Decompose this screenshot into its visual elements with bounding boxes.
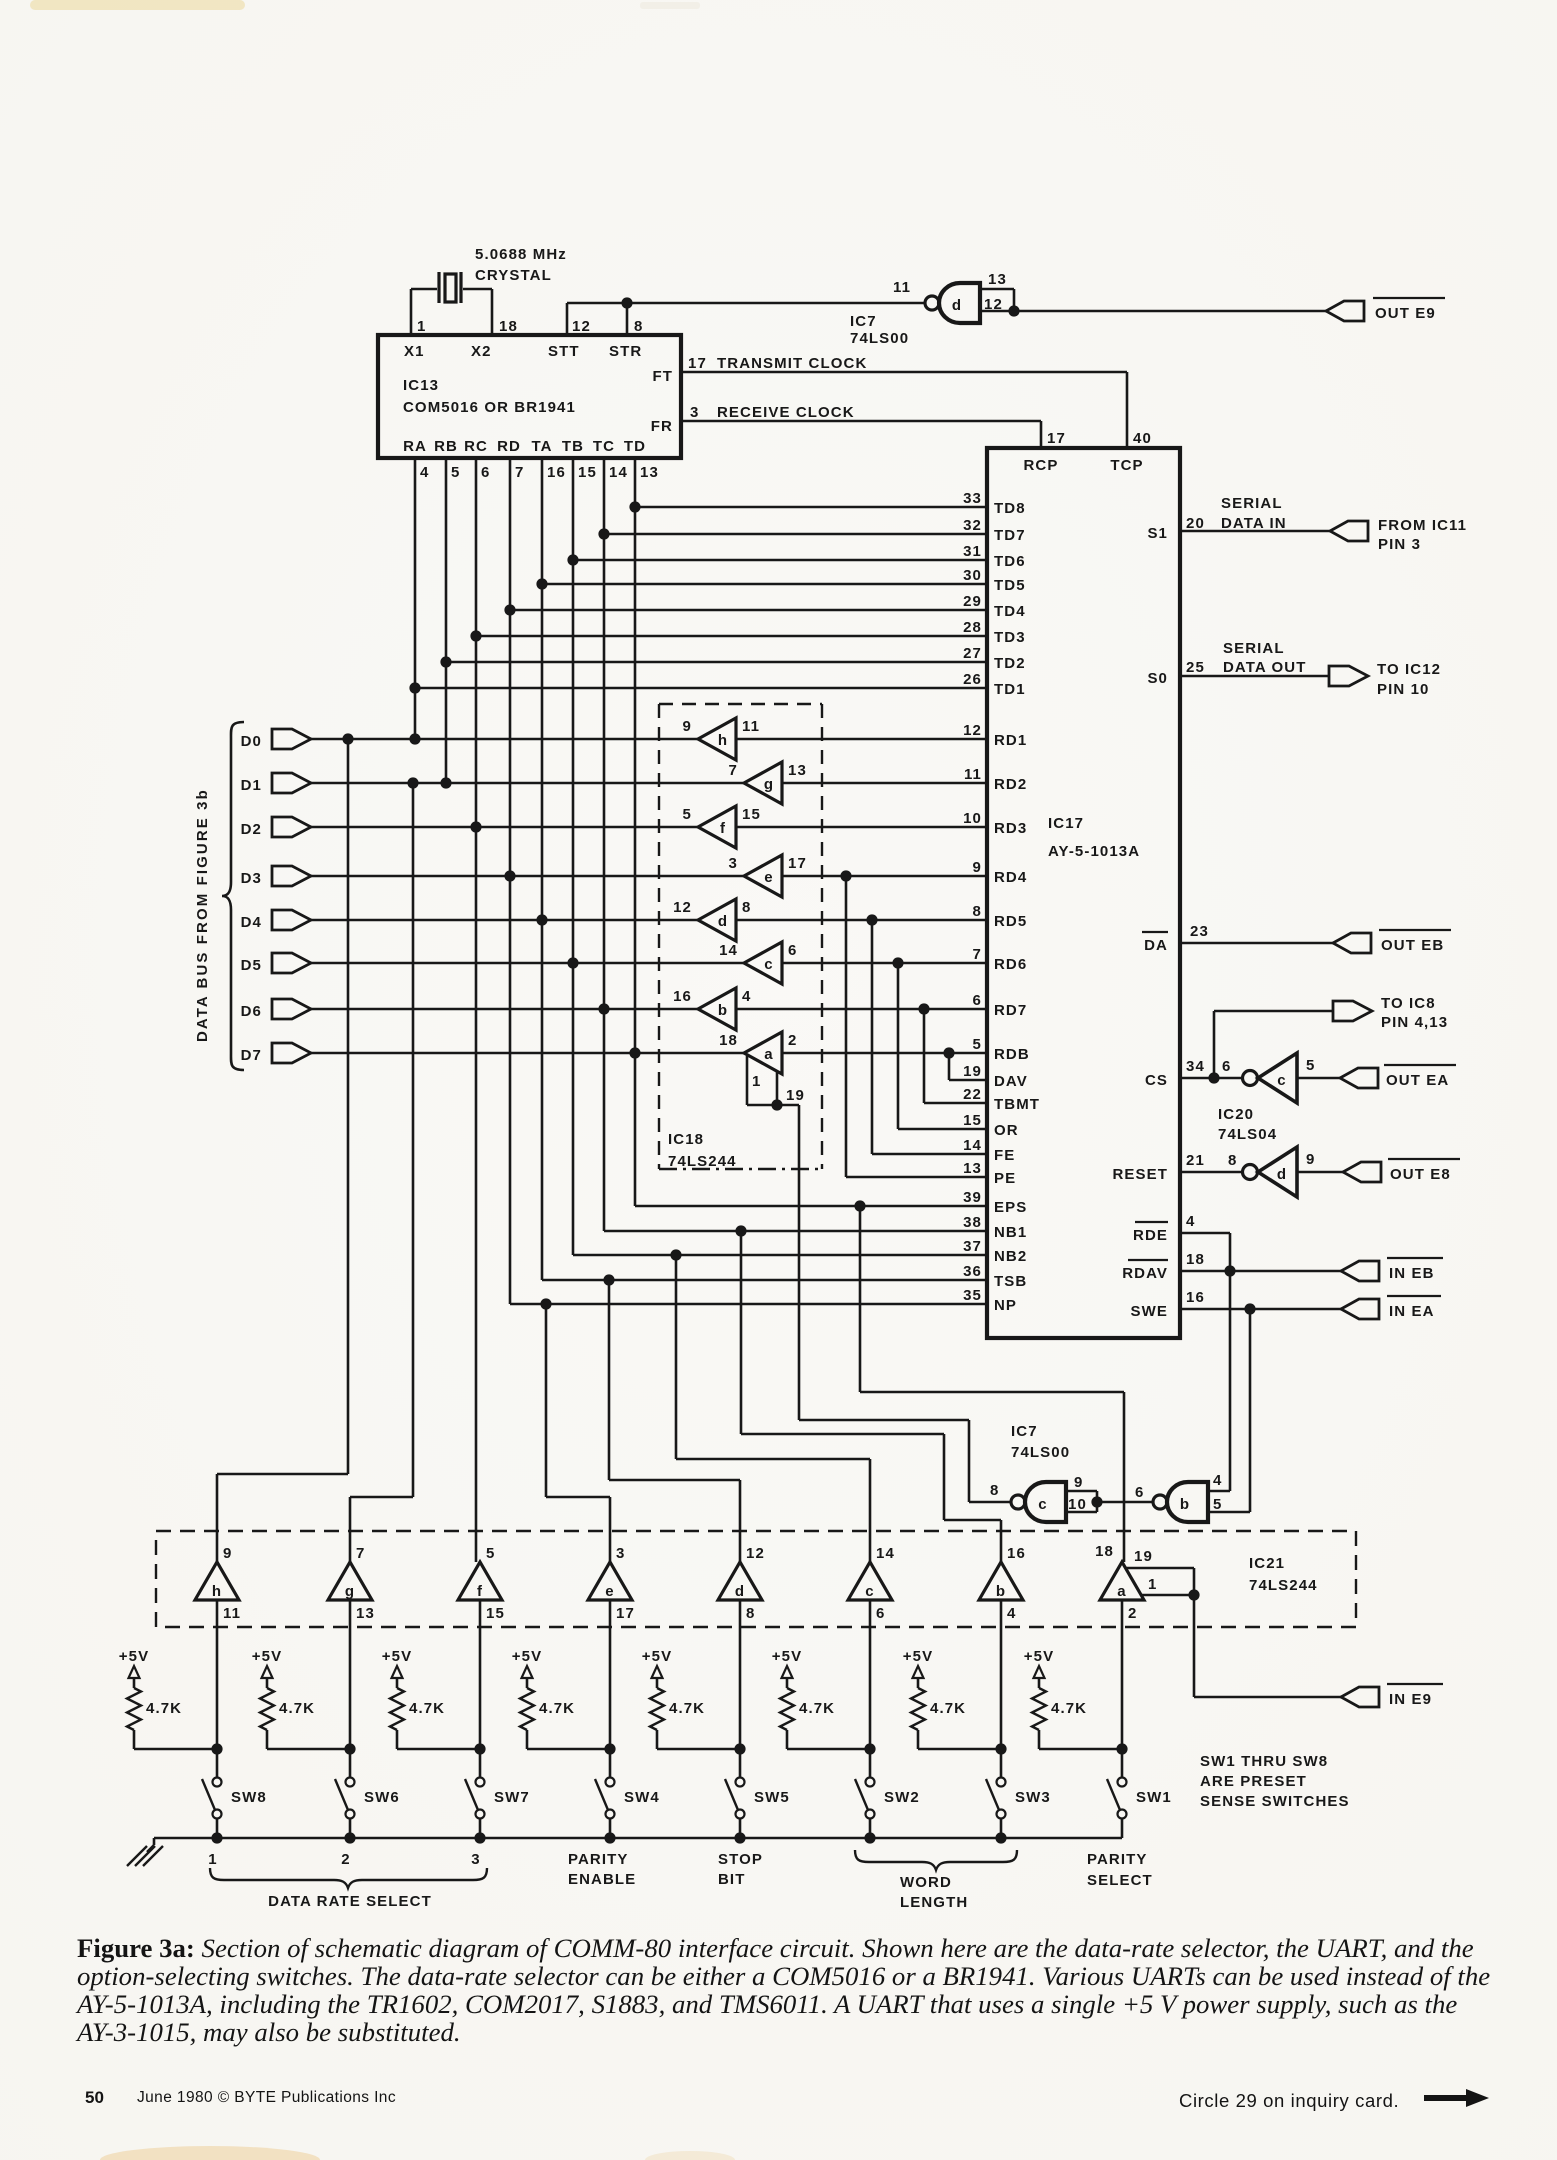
junction ground bus [864, 1832, 875, 1843]
wire buffer g input row [782, 782, 987, 785]
junction [504, 604, 515, 615]
svg-text:FR: FR [651, 418, 673, 435]
junction NP branch [540, 1298, 551, 1309]
svg-text:TC: TC [593, 438, 615, 455]
svg-text:IN E9: IN E9 [1389, 1691, 1432, 1708]
junction enable tie [771, 1099, 782, 1110]
svg-text:4: 4 [742, 988, 751, 1005]
svg-text:17: 17 [616, 1605, 635, 1622]
wire D2 row [310, 826, 698, 829]
svg-text:TD4: TD4 [994, 603, 1026, 620]
buffer IC18 g (pins 13 in / 7 out) [744, 762, 782, 804]
svg-text:8: 8 [973, 903, 982, 920]
svg-text:EPS: EPS [994, 1199, 1027, 1216]
wire D6 row [310, 1008, 698, 1011]
svg-text:TD6: TD6 [994, 553, 1026, 570]
svg-text:5: 5 [683, 806, 692, 823]
wire switch to ground bus [1000, 1819, 1003, 1838]
svg-text:D0: D0 [241, 733, 262, 750]
svg-text:23: 23 [1190, 923, 1209, 940]
svg-text:12: 12 [572, 318, 591, 335]
svg-text:30: 30 [963, 567, 982, 584]
svg-text:TO IC8: TO IC8 [1381, 995, 1436, 1012]
svg-text:6: 6 [973, 992, 982, 1009]
svg-text:c: c [865, 1583, 874, 1600]
junction [567, 554, 578, 565]
switch SW5 [736, 1778, 745, 1787]
wire to OUT EA [1297, 1077, 1340, 1080]
junction EPS branch [854, 1200, 865, 1211]
svg-text:TD5: TD5 [994, 577, 1026, 594]
wire resistor to switch node [266, 1730, 269, 1749]
junction node SW7 [474, 1743, 485, 1754]
resistor 4.7K (SW3 column) [911, 1688, 925, 1730]
wire TBMT to IC17 [923, 1009, 926, 1103]
junction TSB branch [603, 1274, 614, 1285]
connector OUT EB [1333, 933, 1371, 953]
svg-text:5: 5 [1306, 1057, 1315, 1074]
svg-text:f: f [720, 820, 726, 837]
junction gate d inputs [1008, 305, 1019, 316]
wire IC21 c to switch node [869, 1600, 872, 1778]
wire buffer e input row [782, 875, 987, 878]
svg-text:13: 13 [788, 762, 807, 779]
svg-text:1: 1 [1148, 1576, 1157, 1593]
svg-text:28: 28 [963, 619, 982, 636]
wire D1 row [310, 782, 744, 785]
svg-text:Figure 3a: Section of schemati: Figure 3a: Section of schematic diagram … [77, 1933, 1474, 1963]
svg-text:TD8: TD8 [994, 500, 1026, 517]
svg-text:PIN 3: PIN 3 [1378, 536, 1421, 553]
junction node SW4 [604, 1743, 615, 1754]
wire resistor to switch node [526, 1730, 529, 1749]
svg-text:RD6: RD6 [994, 956, 1027, 973]
svg-text:d: d [735, 1583, 745, 1600]
wire buffer d input row [736, 919, 987, 922]
svg-text:TSB: TSB [994, 1273, 1027, 1290]
svg-text:19: 19 [963, 1063, 982, 1080]
svg-text:X1: X1 [404, 343, 425, 360]
svg-text:TD7: TD7 [994, 527, 1026, 544]
svg-text:18: 18 [1186, 1251, 1205, 1268]
junction [598, 528, 609, 539]
svg-text:8: 8 [990, 1482, 999, 1499]
svg-text:DAV: DAV [994, 1073, 1028, 1090]
svg-text:9: 9 [223, 1545, 232, 1562]
svg-text:SW5: SW5 [754, 1789, 790, 1806]
svg-text:TCP: TCP [1110, 457, 1143, 474]
svg-text:12: 12 [746, 1545, 765, 1562]
svg-text:c: c [1277, 1072, 1286, 1089]
svg-text:PARITY: PARITY [568, 1851, 629, 1868]
svg-text:4: 4 [420, 464, 429, 481]
wire TD bus row from pin 4 [415, 687, 987, 690]
wire OR to IC17 [897, 963, 900, 1129]
wire resistor to switch node [396, 1730, 399, 1749]
svg-text:option-selecting switches. The: option-selecting switches. The data-rate… [77, 1961, 1490, 1991]
connector IN E9 [1341, 1687, 1379, 1707]
svg-text:12: 12 [984, 296, 1003, 313]
switch SW8 [213, 1778, 222, 1787]
svg-text:FE: FE [994, 1147, 1015, 1164]
junction D1/IC13 RB [440, 777, 451, 788]
svg-text:b: b [996, 1583, 1006, 1600]
svg-text:f: f [477, 1583, 483, 1600]
svg-text:e: e [764, 869, 773, 886]
svg-text:d: d [1277, 1166, 1287, 1183]
connector FROM IC11 PIN 3 [1330, 521, 1368, 541]
svg-text:4.7K: 4.7K [930, 1700, 966, 1717]
junction D6 column [598, 1003, 609, 1014]
svg-text:FROM IC11: FROM IC11 [1378, 517, 1467, 534]
svg-text:IC18: IC18 [668, 1131, 704, 1148]
ground symbol [153, 1838, 156, 1845]
wire NB2 branch to IC21 c [675, 1255, 678, 1459]
wire DAV to IC17 [948, 1053, 951, 1080]
switch SW1 [1118, 1778, 1127, 1787]
wire TD bus row from pin 7 [510, 609, 987, 612]
wire TD bus row from pin 14 [604, 533, 987, 536]
svg-text:SW7: SW7 [494, 1789, 530, 1806]
svg-text:RC: RC [464, 438, 488, 455]
svg-text:10: 10 [963, 810, 982, 827]
svg-text:40: 40 [1133, 430, 1152, 447]
svg-text:e: e [605, 1583, 614, 1600]
wire IC13 pin 15 vertical [572, 458, 575, 1255]
svg-text:4.7K: 4.7K [799, 1700, 835, 1717]
resistor 4.7K (SW7 column) [390, 1688, 404, 1730]
junction ground bus [344, 1832, 355, 1843]
svg-text:2: 2 [341, 1851, 350, 1868]
svg-text:RD1: RD1 [994, 732, 1027, 749]
svg-text:6: 6 [1135, 1484, 1144, 1501]
wire gate d output to STT/STR [567, 302, 925, 305]
wire IC18 enable to gate c output [798, 1105, 801, 1420]
svg-text:9: 9 [1306, 1151, 1315, 1168]
brace DATA RATE SELECT [210, 1868, 487, 1888]
junction [470, 630, 481, 641]
wire NB1 branch to IC21 b [740, 1231, 743, 1434]
svg-text:37: 37 [963, 1238, 982, 1255]
junction ground bus [211, 1832, 222, 1843]
buffer IC18 c (pins 6 in / 14 out) [744, 942, 782, 984]
svg-text:c: c [764, 956, 773, 973]
resistor 4.7K (SW6 column) [260, 1688, 274, 1730]
gate d input pin 12 [980, 310, 1014, 313]
wire switch to ground bus [609, 1819, 612, 1838]
svg-text:5: 5 [1213, 1496, 1222, 1513]
junction D0/IC13 RA [409, 733, 420, 744]
svg-text:SWE: SWE [1131, 1303, 1168, 1320]
wire gate b output to gate c inputs [1097, 1501, 1153, 1504]
wire IC21 f to switch node [479, 1600, 482, 1778]
svg-text:IN EA: IN EA [1389, 1303, 1435, 1320]
svg-text:3: 3 [729, 855, 738, 872]
junction STT-STR tie [621, 297, 632, 308]
svg-text:15: 15 [963, 1112, 982, 1129]
svg-text:16: 16 [1007, 1545, 1026, 1562]
svg-text:7: 7 [356, 1545, 365, 1562]
svg-text:RDE: RDE [1133, 1227, 1168, 1244]
svg-text:c: c [1038, 1496, 1047, 1513]
svg-text:74LS244: 74LS244 [1249, 1577, 1318, 1594]
svg-text:35: 35 [963, 1287, 982, 1304]
connector TO IC8 PIN 4,13 [1333, 1001, 1372, 1021]
svg-text:TA: TA [531, 438, 552, 455]
buffer IC21 a (pin 2 in / 18 out) [1100, 1562, 1144, 1600]
buffer IC21 d (pin 8 in / 12 out) [718, 1562, 762, 1600]
svg-text:11: 11 [964, 766, 982, 783]
junction node SW8 [211, 1743, 222, 1754]
junction [536, 578, 547, 589]
wire TD bus row from pin 15 [573, 559, 987, 562]
wire buffer b input row [736, 1008, 987, 1011]
wire FE to IC17 [871, 920, 874, 1154]
svg-text:RESET: RESET [1112, 1166, 1168, 1183]
svg-text:RD7: RD7 [994, 1002, 1027, 1019]
svg-text:SW1: SW1 [1136, 1789, 1172, 1806]
svg-text:6: 6 [876, 1605, 885, 1622]
svg-text:RA: RA [403, 438, 427, 455]
svg-text:b: b [718, 1002, 728, 1019]
svg-text:+5V: +5V [642, 1648, 672, 1665]
svg-text:D2: D2 [241, 821, 262, 838]
buffer IC18 f (pins 15 in / 5 out) [698, 806, 736, 848]
svg-text:31: 31 [963, 543, 982, 560]
svg-text:17: 17 [1047, 430, 1066, 447]
connector IN EA [1341, 1299, 1379, 1319]
svg-text:6: 6 [481, 464, 490, 481]
svg-text:3: 3 [690, 404, 699, 421]
svg-text:RD5: RD5 [994, 913, 1027, 930]
junction CS [1208, 1072, 1219, 1083]
wire SWE to gate b pin 5 [1249, 1309, 1252, 1512]
switch SW2 [866, 1778, 875, 1787]
svg-text:FT: FT [652, 368, 673, 385]
wire D0 row [310, 738, 698, 741]
svg-text:26: 26 [963, 671, 982, 688]
svg-text:SERIAL: SERIAL [1221, 495, 1283, 512]
svg-text:15: 15 [578, 464, 597, 481]
junction D0/IC21h column [342, 733, 353, 744]
svg-text:NP: NP [994, 1297, 1017, 1314]
svg-text:AY-5-1013A: AY-5-1013A [1048, 843, 1140, 860]
wire switch to ground bus [479, 1819, 482, 1838]
svg-text:4.7K: 4.7K [539, 1700, 575, 1717]
svg-text:+5V: +5V [903, 1648, 933, 1665]
wire buffer h input row [736, 738, 987, 741]
svg-text:June 1980 © BYTE Publications: June 1980 © BYTE Publications Inc [137, 2089, 396, 2106]
svg-text:LENGTH: LENGTH [900, 1894, 968, 1911]
svg-text:36: 36 [963, 1263, 982, 1280]
svg-text:4.7K: 4.7K [279, 1700, 315, 1717]
svg-text:16: 16 [673, 988, 692, 1005]
svg-text:h: h [718, 732, 728, 749]
IC13 pin 12 STT stub [566, 303, 569, 335]
wire TD bus row from pin 13 [635, 506, 987, 509]
svg-text:7: 7 [729, 762, 738, 779]
svg-text:RB: RB [434, 438, 458, 455]
buffer IC21 h (pin 11 in / 9 out) [195, 1562, 239, 1600]
switch SW7 [476, 1778, 485, 1787]
junction [629, 501, 640, 512]
svg-text:22: 22 [963, 1086, 982, 1103]
buffer IC18 a enable pins 1,19 [746, 1056, 749, 1105]
svg-text:8: 8 [746, 1605, 755, 1622]
svg-text:+5V: +5V [119, 1648, 149, 1665]
svg-text:15: 15 [742, 806, 761, 823]
svg-text:13: 13 [640, 464, 659, 481]
wire gate c output [969, 1501, 1010, 1504]
svg-text:16: 16 [1186, 1289, 1205, 1306]
svg-text:TD1: TD1 [994, 681, 1026, 698]
junction node SW2 [864, 1743, 875, 1754]
wire CS to TO IC8 [1213, 1011, 1216, 1078]
wire resistor to switch node [133, 1730, 136, 1749]
svg-text:TD2: TD2 [994, 655, 1026, 672]
svg-text:2: 2 [1128, 1605, 1137, 1622]
resistor 4.7K (SW4 column) [520, 1688, 534, 1730]
wire NP from D3 column [510, 1303, 987, 1306]
svg-text:8: 8 [634, 318, 643, 335]
junction D2 column [470, 821, 481, 832]
svg-text:9: 9 [683, 718, 692, 735]
svg-text:9: 9 [1074, 1474, 1083, 1491]
svg-text:15: 15 [486, 1605, 505, 1622]
svg-text:4: 4 [1007, 1605, 1016, 1622]
svg-text:13: 13 [963, 1160, 982, 1177]
svg-text:DATA BUS FROM FIGURE 3b: DATA BUS FROM FIGURE 3b [194, 788, 211, 1042]
svg-text:33: 33 [963, 490, 982, 507]
svg-text:IC17: IC17 [1048, 815, 1084, 832]
svg-text:COM5016 OR BR1941: COM5016 OR BR1941 [403, 399, 576, 416]
svg-text:18: 18 [719, 1032, 738, 1049]
svg-text:20: 20 [1186, 515, 1205, 532]
connector OUT E8 [1343, 1162, 1381, 1182]
wire buffer c input row [782, 962, 987, 965]
IC21 74LS244 dashed outline [156, 1531, 1356, 1627]
wire IC21 a to switch node [1121, 1600, 1124, 1778]
svg-text:IC21: IC21 [1249, 1555, 1285, 1572]
svg-text:14: 14 [876, 1545, 895, 1562]
svg-text:1: 1 [208, 1851, 217, 1868]
wire IC13 pin 4 vertical [414, 458, 417, 739]
svg-text:AY-5-1013A, including the TR16: AY-5-1013A, including the TR1602, COM201… [75, 1989, 1457, 2019]
svg-text:1: 1 [417, 318, 426, 335]
buffer IC21 b (pin 4 in / 16 out) [979, 1562, 1023, 1600]
junction SWE [1244, 1303, 1255, 1314]
svg-text:SW4: SW4 [624, 1789, 660, 1806]
svg-text:TRANSMIT CLOCK: TRANSMIT CLOCK [717, 355, 867, 372]
svg-text:RD: RD [497, 438, 521, 455]
svg-text:PIN 10: PIN 10 [1377, 681, 1429, 698]
wire D0 column to IC21 h [347, 739, 350, 1474]
svg-text:39: 39 [963, 1189, 982, 1206]
switch SW6 [346, 1778, 355, 1787]
svg-text:PARITY: PARITY [1087, 1851, 1148, 1868]
svg-text:SW3: SW3 [1015, 1789, 1051, 1806]
wire ground bus [154, 1837, 1122, 1840]
wire RDE to gate b pin 4 [1229, 1233, 1232, 1491]
svg-text:11: 11 [893, 279, 911, 296]
svg-text:OUT EA: OUT EA [1386, 1072, 1449, 1089]
connector IN EB [1341, 1261, 1379, 1281]
wire resistor to switch node [786, 1730, 789, 1749]
svg-text:9: 9 [973, 859, 982, 876]
svg-text:NB1: NB1 [994, 1224, 1027, 1241]
wire EPS from D7 column [635, 1205, 987, 1208]
junction ground bus [604, 1832, 615, 1843]
junction ground bus [734, 1832, 745, 1843]
wire NB2 from D5 column [573, 1254, 987, 1257]
svg-text:29: 29 [963, 593, 982, 610]
resistor 4.7K (SW2 column) [780, 1688, 794, 1730]
junction ground bus [995, 1832, 1006, 1843]
svg-text:SW1 THRU SW8: SW1 THRU SW8 [1200, 1753, 1328, 1770]
svg-text:+5V: +5V [382, 1648, 412, 1665]
buffer IC21 g (pin 13 in / 7 out) [328, 1562, 372, 1600]
svg-text:50: 50 [85, 2088, 104, 2107]
gate d input pin 13 [980, 288, 1014, 291]
svg-text:RECEIVE CLOCK: RECEIVE CLOCK [717, 404, 855, 421]
svg-text:4.7K: 4.7K [1051, 1700, 1087, 1717]
svg-text:D7: D7 [241, 1047, 262, 1064]
svg-text:19: 19 [1134, 1548, 1153, 1565]
junction RDAV/RDE [1224, 1265, 1235, 1276]
junction IC21 enable [1188, 1589, 1199, 1600]
junction PE shares row [840, 870, 851, 881]
connector OUT E9 [1326, 301, 1364, 321]
wire to OUT E9 [1014, 310, 1326, 313]
connector OUT EA [1340, 1068, 1378, 1088]
svg-text:OUT E8: OUT E8 [1390, 1166, 1451, 1183]
wire IC21 h to switch node [216, 1600, 219, 1778]
svg-text:13: 13 [356, 1605, 375, 1622]
svg-text:TBMT: TBMT [994, 1096, 1040, 1113]
scan artifact top-left [30, 0, 245, 10]
footer arrow [1424, 2089, 1489, 2107]
svg-text:RD3: RD3 [994, 820, 1027, 837]
svg-text:25: 25 [1186, 659, 1205, 676]
svg-text:19: 19 [786, 1087, 805, 1104]
svg-text:PE: PE [994, 1170, 1016, 1187]
svg-text:SENSE SWITCHES: SENSE SWITCHES [1200, 1793, 1350, 1810]
svg-text:4.7K: 4.7K [146, 1700, 182, 1717]
resistor 4.7K (SW8 column) [127, 1688, 141, 1730]
svg-text:3: 3 [471, 1851, 480, 1868]
svg-text:4: 4 [1213, 1472, 1222, 1489]
svg-text:D1: D1 [241, 777, 262, 794]
junction [440, 656, 451, 667]
buffer IC21 a enable pins 19,1 [1126, 1567, 1194, 1570]
IC17 AY-5-1013A UART [987, 448, 1180, 1338]
wire D3 row [310, 875, 744, 878]
wire IC21 e to switch node [609, 1600, 612, 1778]
wire D1 column to IC21 g [412, 783, 415, 1497]
svg-text:16: 16 [547, 464, 566, 481]
wire switch to ground bus [1121, 1819, 1124, 1838]
wire TSB branch to IC21 d [608, 1280, 611, 1480]
wire PE to IC17 [845, 876, 848, 1177]
svg-text:6: 6 [1222, 1058, 1231, 1075]
svg-text:RD2: RD2 [994, 776, 1027, 793]
svg-text:STR: STR [609, 343, 642, 360]
wire enable to IN E9 [1193, 1595, 1196, 1697]
svg-text:74LS04: 74LS04 [1218, 1126, 1277, 1143]
IC13 COM5016 OR BR1941 baud-rate generator [378, 335, 681, 458]
wire to OUT E8 [1297, 1171, 1343, 1174]
wire IC13 pin 6 vertical [475, 458, 478, 1562]
